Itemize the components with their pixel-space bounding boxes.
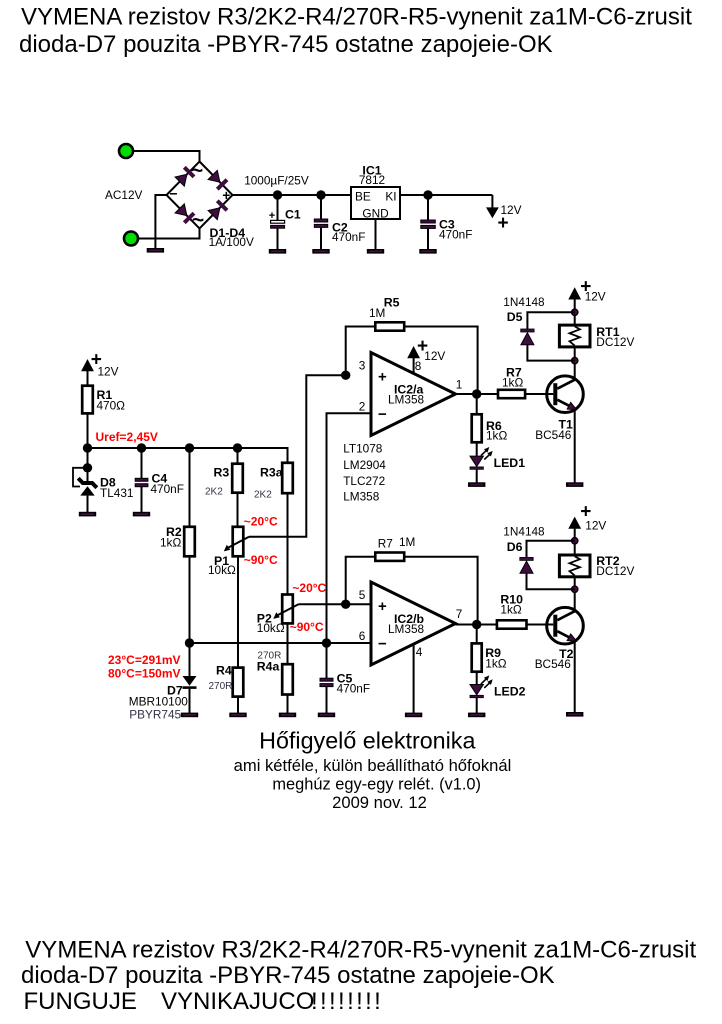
svg-text:D6: D6: [507, 540, 523, 554]
op-amp IC2/b plus: [378, 598, 387, 615]
wire R9 to LED2: [476, 672, 478, 685]
ground C4: [133, 512, 150, 517]
label C5 value: [337, 682, 370, 696]
svg-text:R3a: R3a: [260, 466, 283, 480]
op-amp IC2/b triangle: [371, 582, 456, 665]
svg-text:~20°C: ~20°C: [244, 515, 278, 529]
svg-text:KI: KI: [385, 190, 396, 204]
wire Uref rail: [88, 448, 288, 463]
transistor T2: [547, 607, 584, 644]
wire R2 top: [189, 448, 191, 527]
ground C1: [269, 249, 286, 254]
potentiometer P1 wiper: [224, 537, 249, 552]
svg-text:12V: 12V: [585, 290, 606, 304]
wire lower bus: [190, 642, 372, 644]
subtitle line 1: [234, 756, 512, 775]
label 12V out: [501, 203, 522, 217]
svg-text:12V: 12V: [98, 365, 119, 379]
label R10: [500, 593, 523, 607]
label R7 1k: [506, 366, 522, 380]
svg-text:2K2: 2K2: [254, 490, 272, 501]
label C1 plus: [269, 210, 275, 222]
node RT1 bottom: [572, 357, 578, 363]
svg-text:!!!!!!!!: !!!!!!!!: [311, 988, 383, 1015]
svg-text:R5: R5: [384, 296, 400, 310]
label C4: [152, 472, 168, 486]
potentiometer P1 body: [233, 527, 244, 557]
wire D6 bottom: [527, 573, 575, 589]
svg-text:R4a: R4a: [257, 660, 280, 674]
resistor R3a: [282, 463, 293, 493]
label RT2 DC12V: [596, 564, 634, 578]
wire output IC2/a: [456, 393, 499, 395]
ground T1: [566, 482, 583, 487]
label R4: [216, 664, 232, 678]
label R2: [166, 525, 182, 539]
node bus-C5-pin6: [322, 638, 331, 647]
label IC1: [362, 164, 381, 178]
diode D6: [520, 557, 533, 573]
svg-text:DC12V: DC12V: [596, 335, 634, 349]
pin 1 label: [456, 378, 463, 392]
label 12V R1: [98, 365, 119, 379]
label C4 value: [151, 482, 184, 496]
note top line 1: [21, 3, 692, 30]
label R3a: [260, 466, 283, 480]
wire IC1 gnd: [375, 219, 377, 249]
svg-text:−: −: [169, 186, 177, 202]
label D8: [100, 476, 116, 490]
svg-text:7: 7: [456, 607, 463, 621]
ground LED1: [468, 482, 485, 487]
label R4a: [257, 660, 280, 674]
svg-text:Uref=2,45V: Uref=2,45V: [96, 430, 158, 444]
wire R7 to T1 base: [525, 393, 553, 395]
label R7 1M value: [399, 535, 415, 549]
svg-text:2K2: 2K2: [205, 487, 223, 498]
bridge + mark: [222, 188, 230, 203]
svg-text:~90°C: ~90°C: [290, 620, 324, 634]
wire T1 emitter to ground: [574, 409, 576, 483]
svg-text:VYNIKAJUCO: VYNIKAJUCO: [161, 988, 314, 1015]
capacitor C5: [320, 643, 333, 713]
wire P2 wiper to pin5: [299, 603, 346, 605]
label plus pin8: [417, 336, 428, 357]
wire pin8 supply: [407, 346, 420, 374]
label R4a 270R: [257, 651, 281, 662]
svg-text:+: +: [378, 369, 387, 386]
terminal AC input top: [119, 144, 133, 158]
svg-text:~20°C: ~20°C: [292, 581, 326, 595]
resistor R3: [232, 464, 243, 493]
svg-text:6: 6: [359, 629, 366, 643]
node pin5 feedback: [341, 600, 350, 609]
svg-text:BC546: BC546: [535, 657, 572, 671]
wire R4a to ground: [287, 695, 289, 714]
ground D8: [79, 512, 96, 517]
label P2 value: [257, 621, 285, 635]
wire R6 to LED1: [476, 442, 478, 456]
capacitor C1 electrolytic: [271, 195, 285, 249]
svg-text:FUNGUJE: FUNGUJE: [24, 988, 137, 1015]
wire D5 bottom: [527, 345, 574, 361]
diode D4 bottom-right: [208, 201, 227, 220]
wire output IC2/b: [456, 624, 497, 626]
pin 4 label: [416, 645, 423, 659]
opamp list LM2904: [343, 458, 386, 472]
svg-text:470nF: 470nF: [332, 230, 365, 244]
wire R3a to P2: [287, 493, 289, 594]
diode D7: [183, 676, 197, 689]
label R6 value: [486, 429, 507, 443]
diode D1 top-left: [175, 167, 194, 186]
resistor R6: [472, 414, 482, 442]
svg-text:1N4148: 1N4148: [503, 295, 545, 309]
label PBYR745: [129, 708, 181, 722]
label R9 value: [485, 657, 506, 671]
ground bridge: [147, 248, 164, 253]
svg-text:12V: 12V: [424, 349, 445, 363]
wire P2-R4a column: [287, 623, 289, 664]
bridge rectifier D1-D4 diamond: [167, 162, 233, 229]
label plus RT1: [580, 277, 591, 298]
svg-text:10kΩ: 10kΩ: [208, 563, 236, 577]
ground IC1: [367, 249, 384, 254]
label D6: [507, 540, 523, 554]
wire terminal-bottom to bridge: [138, 228, 200, 239]
label GND pin: [362, 207, 388, 221]
node Uref-R2: [185, 443, 194, 452]
wire R6 top: [476, 394, 478, 414]
potentiometer P2 wiper: [273, 604, 298, 619]
svg-text:1kΩ: 1kΩ: [485, 657, 506, 671]
resistor R2: [184, 527, 195, 557]
label P2 20C red: [292, 581, 326, 595]
label IC2/b: [394, 612, 424, 626]
wire LED1 to ground: [476, 469, 478, 483]
ground LED2: [468, 713, 485, 718]
wire main 12V rail: [233, 194, 493, 196]
label P2 90C red: [290, 620, 324, 634]
relay RT2: [559, 555, 590, 577]
label R1 value: [97, 399, 126, 413]
svg-text:ami kétféle, külön beállítható: ami kétféle, külön beállítható hőfoknál: [234, 756, 512, 775]
svg-text:meghúz egy-egy relét. (v1.0): meghúz egy-egy relét. (v1.0): [272, 775, 481, 793]
node output a: [472, 389, 481, 398]
wire pin5: [346, 603, 371, 605]
svg-text:10kΩ: 10kΩ: [257, 621, 285, 635]
svg-text:TLC272: TLC272: [343, 474, 385, 488]
wire R7 1M feedback: [346, 557, 478, 625]
svg-text:1A/100V: 1A/100V: [209, 235, 254, 249]
node Uref-R3: [233, 443, 242, 452]
regulator IC1 box: [351, 187, 400, 219]
node RT2 top: [572, 538, 578, 544]
op-amp IC2/a minus: [378, 406, 387, 423]
svg-text:2: 2: [359, 400, 366, 414]
note top line 2: [19, 31, 553, 58]
op-amp IC2/a plus: [378, 369, 387, 386]
label plus out: [497, 213, 508, 234]
svg-text:LM358: LM358: [388, 393, 425, 407]
svg-text:BC546: BC546: [535, 428, 572, 442]
wire R10 to T2 base: [527, 624, 554, 626]
supply arrow 12V RT2: [568, 517, 581, 555]
bridge - mark: [169, 186, 177, 202]
label IC2/a: [394, 383, 424, 397]
pin 7 label: [456, 607, 463, 621]
svg-text:PBYR745: PBYR745: [129, 708, 181, 722]
svg-text:MBR10100: MBR10100: [129, 695, 188, 709]
node bus-R2-D7: [185, 638, 194, 647]
label T2: [559, 647, 574, 661]
wire LED2 to ground: [476, 697, 478, 713]
svg-text:GND: GND: [362, 207, 388, 221]
label R6: [486, 419, 502, 433]
label MBR10100: [129, 695, 188, 709]
label R3: [214, 466, 230, 480]
note bottom line 2: [21, 962, 555, 989]
svg-text:1kΩ: 1kΩ: [502, 376, 523, 390]
ground D7: [181, 713, 198, 718]
svg-text:+: +: [497, 213, 508, 234]
resistor R4a: [282, 664, 293, 694]
wire D7 top: [189, 643, 191, 676]
opamp list TLC272: [343, 474, 385, 488]
node D8 gate: [83, 463, 92, 472]
svg-text:+: +: [378, 598, 387, 615]
label LED1: [494, 456, 526, 470]
label 7812: [359, 173, 385, 187]
label plus R1: [91, 350, 102, 371]
label RT2: [596, 554, 619, 568]
ground C3: [419, 249, 436, 254]
label D5: [507, 310, 523, 324]
capacitor C3: [421, 195, 436, 249]
svg-text:R4: R4: [216, 664, 232, 678]
svg-text:8: 8: [415, 359, 422, 373]
label D7: [167, 684, 183, 698]
svg-text:LM358: LM358: [343, 490, 380, 504]
wire D5 top: [527, 312, 574, 329]
label R9: [485, 646, 501, 660]
subtitle line 2: [272, 775, 481, 793]
op-amp IC2/a triangle: [371, 353, 456, 436]
supply arrow 12V R1: [81, 359, 94, 386]
svg-text:DC12V: DC12V: [596, 564, 634, 578]
svg-text:−: −: [378, 636, 387, 653]
svg-text:R7: R7: [378, 537, 393, 551]
svg-text:1kΩ: 1kΩ: [486, 429, 507, 443]
label P1 90C red: [244, 553, 278, 567]
label P1: [214, 554, 229, 568]
label C3: [439, 218, 455, 232]
svg-text:C1: C1: [285, 208, 301, 222]
svg-text:+: +: [269, 210, 275, 222]
node Uref-C4: [137, 443, 146, 452]
label 12V pin8: [424, 349, 445, 363]
svg-text:2009 nov. 12: 2009 nov. 12: [332, 793, 427, 812]
svg-text:−: −: [378, 406, 387, 423]
terminal AC input bottom: [124, 232, 138, 246]
note bottom line 1: [25, 937, 696, 964]
LED1: [470, 447, 493, 469]
pin 6 label: [359, 629, 366, 643]
resistor R5: [375, 322, 404, 330]
wire pin4 ground: [413, 644, 415, 713]
node RT2 bottom: [572, 586, 578, 592]
svg-text:1: 1: [456, 378, 463, 392]
svg-text:VYMENA rezistov R3/2K2-R4/270R: VYMENA rezistov R3/2K2-R4/270R-R5-vyneni…: [21, 3, 692, 30]
title Hofigyelo: [259, 728, 475, 754]
potentiometer P2 body: [282, 595, 293, 624]
label T1: [559, 418, 574, 432]
opamp list LM358: [343, 490, 380, 504]
svg-text:470nF: 470nF: [337, 682, 370, 696]
label R3a value 2K2: [254, 490, 272, 501]
wire R9 top: [476, 625, 478, 644]
relay RT1: [559, 325, 590, 347]
wire pin2 column: [327, 413, 372, 643]
label C5: [337, 672, 353, 686]
node Uref-R1: [83, 443, 92, 452]
pin 3 label: [359, 359, 366, 373]
svg-text:VYMENA rezistov R3/2K2-R4/270R: VYMENA rezistov R3/2K2-R4/270R-R5-vyneni…: [25, 937, 696, 964]
diode D3 bottom-left: [175, 204, 194, 223]
pin 2 label: [359, 400, 366, 414]
svg-text:1000µF/25V: 1000µF/25V: [244, 174, 309, 188]
supply arrow 12V out: [486, 195, 499, 218]
label 1N4148 D5: [503, 295, 545, 309]
resistor R4: [233, 668, 244, 697]
wire RT2 to T2 collector: [574, 577, 576, 609]
svg-text:4: 4: [416, 645, 423, 659]
svg-text:D5: D5: [507, 310, 523, 324]
opamp list LT1078: [343, 442, 383, 456]
svg-text:7812: 7812: [359, 173, 385, 187]
ground R4a: [279, 713, 296, 718]
label R3 value 2K2: [205, 487, 223, 498]
diode D2 top-right: [208, 170, 227, 189]
ground pin4: [405, 713, 422, 718]
label IC2/b LM358: [388, 622, 425, 636]
label 1000uF/25V: [244, 174, 309, 188]
svg-text:LT1078: LT1078: [343, 442, 383, 456]
wire R2 to bus: [189, 556, 191, 643]
label T1 BC546: [535, 428, 572, 442]
subtitle date: [332, 793, 427, 812]
pin 5 label: [359, 588, 366, 602]
label red 80C: [108, 667, 181, 681]
bridge ~ top: [191, 160, 203, 183]
svg-text:3: 3: [359, 359, 366, 373]
ground R4: [229, 713, 246, 718]
ground C5: [318, 713, 335, 718]
svg-text:1kΩ: 1kΩ: [500, 603, 521, 617]
label 1N4148 D6: [503, 525, 545, 539]
svg-text:dioda-D7 pouzita -PBYR-745 ost: dioda-D7 pouzita -PBYR-745 ostatne zapoj…: [21, 962, 555, 989]
label RT1 DC12V: [596, 335, 634, 349]
svg-text:+: +: [222, 188, 230, 203]
svg-text:TL431: TL431: [100, 486, 133, 500]
wire P1-R4 column: [237, 556, 239, 667]
label Uref red: [96, 430, 158, 444]
svg-text:Hőfigyelő elektronika: Hőfigyelő elektronika: [259, 728, 475, 754]
node pin3 feedback: [341, 371, 350, 380]
resistor R9: [472, 643, 482, 671]
label P2: [257, 612, 272, 626]
wire D8 top: [87, 448, 89, 481]
node C3: [423, 190, 432, 199]
label IC2/a LM358: [388, 393, 425, 407]
label D1-D4: [210, 226, 246, 240]
label TL431: [100, 486, 133, 500]
label R7 1k value: [502, 376, 523, 390]
node output b: [472, 620, 481, 629]
label LED2: [494, 685, 526, 699]
wire D8 to ground: [87, 496, 89, 512]
svg-text:12V: 12V: [585, 519, 606, 533]
label C2 value: [332, 230, 365, 244]
node RT1 top: [572, 309, 578, 315]
resistor R1: [82, 386, 93, 414]
svg-text:1kΩ: 1kΩ: [160, 536, 181, 550]
wire D7 to ground: [189, 689, 191, 713]
transistor T1: [547, 376, 584, 413]
svg-text:1M: 1M: [369, 306, 385, 320]
label R5: [384, 296, 400, 310]
pin 8 label: [415, 359, 422, 373]
zener D8 TL431 bar: [78, 478, 97, 488]
resistor R10: [497, 620, 527, 628]
diode D5: [521, 329, 534, 345]
svg-text:AC12V: AC12V: [105, 188, 143, 202]
node C1: [273, 190, 282, 199]
ground T2: [566, 712, 583, 717]
zener D8 TL431 triangle: [80, 486, 94, 495]
label 12V RT1: [585, 290, 606, 304]
svg-text:~: ~: [192, 209, 204, 232]
svg-text:1N4148: 1N4148: [503, 525, 545, 539]
note bottom line 3: [24, 988, 384, 1015]
wire R3 to P1: [237, 493, 239, 527]
svg-text:LED2: LED2: [494, 685, 526, 699]
svg-text:23°C=291mV: 23°C=291mV: [108, 653, 181, 667]
svg-text:80°C=150mV: 80°C=150mV: [108, 667, 181, 681]
capacitor C2: [314, 195, 327, 249]
resistor R7 1M: [375, 553, 404, 561]
bridge ~ bottom: [192, 209, 204, 232]
ground C2: [312, 249, 329, 254]
svg-text:R3: R3: [214, 466, 230, 480]
svg-text:~90°C: ~90°C: [244, 553, 278, 567]
label KI pin: [385, 190, 396, 204]
label R1: [97, 388, 113, 402]
wire R1 to Uref node: [87, 413, 89, 448]
wire D6 top: [527, 541, 575, 558]
label AC12V: [105, 188, 143, 202]
svg-text:LM2904: LM2904: [343, 458, 386, 472]
node C2: [316, 190, 325, 199]
svg-text:5: 5: [359, 588, 366, 602]
label plus RT2: [580, 502, 591, 523]
capacitor C4: [135, 448, 148, 512]
wire bridge minus to ground: [155, 195, 166, 248]
label 12V RT2: [585, 519, 606, 533]
label R10 value: [500, 603, 521, 617]
label R7 1M: [378, 537, 393, 551]
svg-text:LM358: LM358: [388, 622, 425, 636]
